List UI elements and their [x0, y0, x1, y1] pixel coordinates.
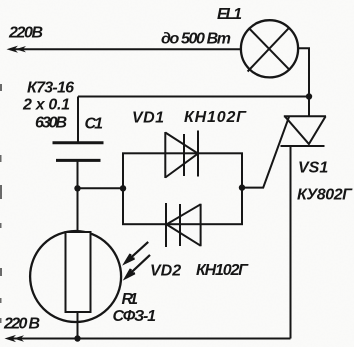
svg-text:КН102Г: КН102Г — [196, 262, 249, 279]
svg-text:R1: R1 — [122, 291, 139, 308]
svg-text:VD2: VD2 — [150, 263, 181, 280]
svg-text:220 В: 220 В — [3, 316, 40, 333]
svg-text:630В: 630В — [35, 115, 67, 132]
svg-text:К73-16: К73-16 — [27, 80, 74, 97]
svg-text:2 х 0.1: 2 х 0.1 — [22, 97, 70, 114]
svg-text:VS1: VS1 — [298, 160, 328, 177]
svg-text:КУ802Г: КУ802Г — [297, 187, 353, 204]
svg-text:СФЗ-1: СФЗ-1 — [113, 308, 157, 325]
svg-text:до 500 Вт: до 500 Вт — [161, 30, 231, 47]
svg-text:VD1: VD1 — [132, 110, 164, 127]
svg-text:КН102Г: КН102Г — [184, 109, 247, 126]
svg-text:EL1: EL1 — [217, 6, 242, 23]
svg-text:220В: 220В — [8, 25, 43, 42]
svg-text:С1: С1 — [85, 116, 104, 133]
